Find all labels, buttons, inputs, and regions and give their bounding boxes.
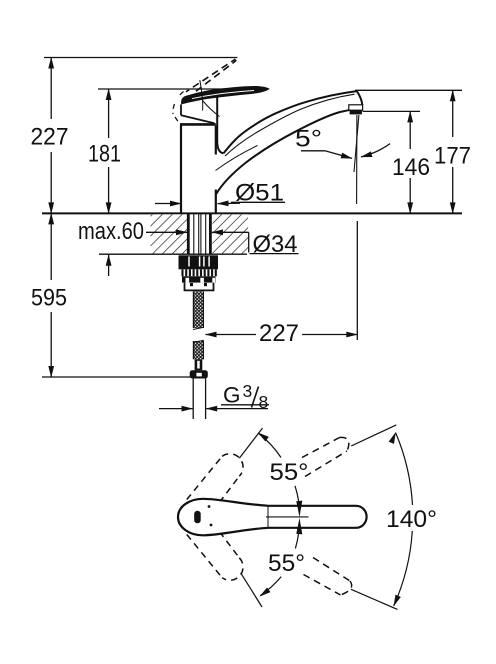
227 bottom dimension [206,221,358,340]
extension line 181 [98,88,248,90]
spout outer curve [224,91,357,153]
Ø51 leader and arrows [155,202,285,203]
junction line [267,507,269,528]
counter hatch left block [151,214,188,254]
svg-text:max.60: max.60 [78,218,144,245]
solid plan faucet (white fill over dashes) [178,499,367,536]
dimension 181 vertical [108,89,110,138]
140 deg arc [396,433,413,505]
svg-text:140°: 140° [386,506,437,533]
ribbed band [183,269,216,276]
bracket [185,283,214,291]
dimension 177 vertical [452,90,454,137]
max.60 arrow [108,255,110,276]
extension line 177 [355,89,462,91]
5 deg leader [301,144,390,159]
svg-text:5°: 5° [295,126,322,153]
plan labels [268,459,437,577]
G3/8 nut [190,370,208,378]
G3/8 dimension [159,405,269,409]
svg-text:Ø34: Ø34 [253,231,298,258]
centerline [266,516,309,518]
55 top annotation [256,430,269,442]
55 bottom annotation [258,587,271,599]
dashed raised lever [186,59,236,93]
extension line bottom 595 [42,376,190,378]
hole edge right (thick) [209,214,212,254]
extension line 146 [363,110,421,112]
spout neck back edge [217,98,223,154]
svg-text:8: 8 [259,392,269,412]
svg-text:146: 146 [392,154,430,181]
spout underside curve [216,110,351,194]
braided hose lower [193,341,203,359]
counter bottom line [99,253,247,255]
5 degree tilted line [354,115,359,172]
dashed handle upper-left [187,454,243,503]
dashed spout upper-right [302,437,349,476]
counter top line [42,212,462,214]
dots [208,505,211,508]
lever motion arcs [200,80,258,171]
braided hose upper [193,292,203,329]
svg-text:55°: 55° [268,550,305,577]
svg-text:Ø51: Ø51 [235,180,284,207]
aerator [349,105,363,110]
svg-text:181: 181 [88,141,121,168]
dashed spout lower-right [304,558,352,596]
dimension 146 vertical [409,111,411,149]
svg-text:G: G [223,383,241,408]
clip band [182,276,216,282]
water stream line [356,115,358,204]
svg-text:3: 3 [243,381,253,401]
svg-text:177: 177 [434,143,471,170]
hose connector [195,359,203,370]
Ø34 arrows [146,232,299,253]
radiating lines [239,425,397,610]
svg-text:595: 595 [31,285,67,312]
extension line top (raised lever height) [44,57,237,59]
handle lever (black blade) [181,86,270,105]
dimension 227 vertical [50,58,52,120]
lever slot black bar [194,511,201,524]
dashed raised lever butt [173,92,184,122]
svg-text:55°: 55° [270,459,309,486]
dashed handle lower-left [187,532,243,581]
dimension 595 vertical [50,213,52,280]
handle base quad [181,93,217,123]
faucet body [180,124,216,212]
hole edge left (thick) [187,214,190,254]
shank tube lines [194,214,206,255]
spout inner highlight [225,94,355,156]
bottom tube [192,379,194,420]
redraw center arrows over shape [296,501,302,517]
140 arc arrowheads [389,431,399,444]
handle highlight [192,91,254,99]
counter hatch right block [213,214,249,254]
svg-text:227: 227 [259,320,299,347]
spout end face [357,91,363,105]
cartridge black block [179,255,219,269]
svg-text:227: 227 [31,124,69,151]
